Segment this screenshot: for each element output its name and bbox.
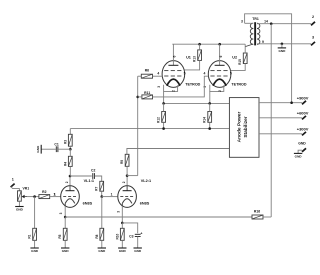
svg-text:Anode Power: Anode Power <box>237 112 243 143</box>
wire <box>153 76 209 97</box>
connector 3 <box>311 35 315 45</box>
svg-text:GND: GND <box>278 49 286 53</box>
wire <box>69 176 71 186</box>
svg-text:6: 6 <box>219 55 223 57</box>
svg-text:GND: GND <box>295 155 303 159</box>
svg-text:R11: R11 <box>144 91 150 95</box>
resistor R8 <box>95 228 104 240</box>
wire <box>270 24 272 217</box>
resistor R10 <box>115 228 124 240</box>
capacitor C2 <box>91 168 95 179</box>
resistor R15 <box>238 53 247 65</box>
svg-text:2: 2 <box>312 15 314 19</box>
wire <box>122 223 137 233</box>
tetrode U2 <box>203 44 247 103</box>
node 1 label <box>53 192 55 196</box>
wire <box>41 148 56 150</box>
svg-text:R3: R3 <box>63 140 67 144</box>
ground <box>118 248 126 253</box>
svg-text:GND: GND <box>62 249 70 253</box>
ground <box>61 248 69 253</box>
resistor R13 <box>193 50 202 62</box>
wire <box>259 133 302 135</box>
node junction <box>101 195 104 198</box>
wire <box>101 191 103 196</box>
wire <box>34 197 36 229</box>
wire <box>101 240 103 248</box>
svg-text:GND: GND <box>134 249 142 253</box>
svg-text:+900V: +900V <box>297 96 309 101</box>
svg-text:GND: GND <box>98 249 106 253</box>
node junction <box>198 43 201 46</box>
wire <box>27 196 39 198</box>
wire <box>244 44 246 53</box>
node junction <box>218 43 221 46</box>
connector 1 <box>11 178 15 188</box>
svg-text:5: 5 <box>230 71 232 75</box>
pin 3 label <box>241 19 243 23</box>
svg-text:GND: GND <box>298 141 306 145</box>
wire <box>245 44 253 47</box>
wire <box>101 197 103 229</box>
svg-text:VL2:1: VL2:1 <box>141 179 151 183</box>
potentiometer VR1 <box>18 187 30 202</box>
wire <box>65 216 252 218</box>
svg-text:R6: R6 <box>145 69 149 73</box>
svg-text:GND: GND <box>119 249 127 253</box>
svg-text:2: 2 <box>218 90 222 92</box>
wire <box>164 102 230 104</box>
ground <box>294 153 302 158</box>
resistor R6 <box>141 69 152 79</box>
svg-text:2: 2 <box>122 181 126 183</box>
node junction <box>281 43 284 46</box>
svg-text:+600V: +600V <box>297 111 309 116</box>
wire <box>138 96 142 98</box>
ground <box>278 48 286 53</box>
ground <box>98 248 106 253</box>
wire <box>126 176 128 186</box>
wire <box>34 240 36 248</box>
svg-text:3: 3 <box>312 35 314 39</box>
node junction <box>136 96 139 99</box>
svg-text:R2: R2 <box>42 190 46 194</box>
svg-text:3: 3 <box>116 211 120 213</box>
wire <box>50 196 61 198</box>
svg-text:R5: R5 <box>58 234 62 238</box>
anode power stabilizer U3 <box>229 98 259 158</box>
svg-text:C2: C2 <box>91 168 95 172</box>
wire <box>18 201 20 206</box>
wire <box>102 196 118 198</box>
wire <box>172 43 245 45</box>
svg-text:GND: GND <box>31 249 39 253</box>
wire <box>263 216 271 218</box>
svg-text:R7: R7 <box>95 187 99 191</box>
connector GND <box>298 141 306 153</box>
svg-text:R9: R9 <box>120 160 124 164</box>
triode VL1.1 <box>54 179 94 214</box>
svg-text:Stabilizer: Stabilizer <box>243 116 249 137</box>
svg-text:VR1: VR1 <box>22 187 29 191</box>
node junction <box>126 174 129 177</box>
ground <box>30 248 38 253</box>
svg-text:R10: R10 <box>115 233 119 239</box>
wire <box>69 149 71 156</box>
svg-text:C3: C3 <box>129 234 133 238</box>
resistor R11 <box>142 91 153 99</box>
svg-text:TR1: TR1 <box>252 17 259 21</box>
wire <box>64 206 66 217</box>
wire <box>137 237 139 248</box>
connector +900V <box>297 96 309 105</box>
wire <box>185 60 200 70</box>
svg-text:1: 1 <box>54 192 56 196</box>
wire <box>163 122 165 128</box>
svg-text:R16: R16 <box>254 210 260 214</box>
resistor R2 <box>39 190 50 199</box>
wire <box>257 43 311 45</box>
svg-text:6N8S: 6N8S <box>83 202 93 206</box>
svg-text:U2: U2 <box>232 55 237 59</box>
wire <box>69 146 71 149</box>
connector 2 <box>311 15 315 25</box>
connector +600V <box>297 111 309 120</box>
node junction <box>121 222 124 225</box>
svg-text:3: 3 <box>157 86 161 88</box>
wire <box>259 102 302 104</box>
svg-text:R12: R12 <box>157 117 161 123</box>
node junction <box>33 195 36 198</box>
wire <box>259 117 302 119</box>
wire <box>64 240 66 248</box>
resistor R1 <box>28 228 37 240</box>
ground <box>134 248 142 253</box>
wire <box>64 217 66 228</box>
node junction <box>162 127 165 130</box>
capacitor C1 <box>54 142 58 152</box>
svg-text:2: 2 <box>172 90 176 92</box>
wire <box>95 176 102 181</box>
wire <box>137 76 139 175</box>
resistor R7 <box>95 181 104 191</box>
wire <box>70 175 92 177</box>
svg-text:R15: R15 <box>238 59 242 65</box>
svg-text:+: + <box>140 232 142 236</box>
wire <box>199 44 201 50</box>
resistor R9 <box>120 154 129 166</box>
svg-text:GND: GND <box>16 208 24 212</box>
wire <box>121 206 123 223</box>
wire <box>69 129 71 135</box>
wire <box>58 148 70 150</box>
wire <box>121 223 123 228</box>
transformer TR1 <box>250 17 260 45</box>
svg-text:5: 5 <box>184 71 186 75</box>
svg-text:9: 9 <box>262 40 264 44</box>
wire <box>70 128 229 130</box>
resistor R4 <box>63 156 72 166</box>
wire <box>209 122 211 128</box>
wire <box>153 75 163 77</box>
svg-text:TETROD: TETROD <box>231 83 246 87</box>
wire <box>231 64 246 71</box>
pin 14 label <box>264 20 268 24</box>
wire <box>138 75 142 77</box>
resistor R12 <box>157 112 166 123</box>
wire <box>11 187 19 191</box>
pin 9 label <box>262 40 264 44</box>
svg-text:4: 4 <box>204 71 206 75</box>
triode VL2.1 <box>116 179 151 213</box>
wire <box>127 175 138 177</box>
ground <box>15 207 23 212</box>
svg-text:3: 3 <box>203 86 207 88</box>
node junction <box>69 175 72 178</box>
resistor R5 <box>58 228 67 240</box>
resistor R14 <box>203 112 212 123</box>
node junction <box>208 127 211 130</box>
wire <box>245 22 254 24</box>
svg-text:3: 3 <box>241 19 243 23</box>
svg-text:R1: R1 <box>28 234 32 238</box>
node 1 label <box>111 192 113 196</box>
svg-text:3: 3 <box>59 212 63 214</box>
svg-text:1: 1 <box>111 192 113 196</box>
svg-text:2: 2 <box>65 181 69 183</box>
node junction <box>270 22 273 25</box>
wire <box>121 240 123 248</box>
connector +300V <box>297 127 309 136</box>
svg-text:14: 14 <box>264 20 268 24</box>
wire <box>127 149 229 155</box>
node junction <box>64 216 67 219</box>
svg-text:GND: GND <box>36 145 40 153</box>
svg-text:R8: R8 <box>95 234 99 238</box>
svg-text:1: 1 <box>12 178 14 182</box>
ground <box>36 145 41 154</box>
svg-text:R4: R4 <box>63 162 67 166</box>
svg-text:+300V: +300V <box>297 127 309 132</box>
node junction <box>208 102 211 105</box>
wire <box>209 103 211 111</box>
capacitor C3 <box>129 232 142 239</box>
wire <box>163 103 165 111</box>
resistor R3 <box>63 134 72 146</box>
wire <box>69 166 71 176</box>
svg-text:6N8S: 6N8S <box>140 202 150 206</box>
wire <box>257 23 311 25</box>
svg-text:R13: R13 <box>193 56 197 62</box>
svg-text:U1: U1 <box>186 55 191 59</box>
svg-text:VL1:1: VL1:1 <box>84 179 94 183</box>
svg-text:4: 4 <box>157 71 159 75</box>
svg-text:TETROD: TETROD <box>185 83 200 87</box>
svg-text:C1: C1 <box>54 142 58 146</box>
wire <box>126 166 128 175</box>
node junction <box>290 101 293 104</box>
resistor R16 <box>252 210 263 219</box>
node junction <box>162 102 165 105</box>
svg-text:R14: R14 <box>203 117 207 123</box>
wire <box>245 14 292 103</box>
node junction <box>69 148 72 151</box>
wire <box>281 44 283 48</box>
tetrode U1 <box>157 44 201 103</box>
svg-text:6: 6 <box>173 55 177 57</box>
